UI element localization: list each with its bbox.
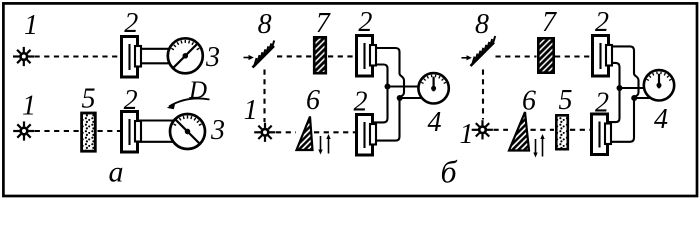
beam filter 7 to detector 2 bbox=[328, 55, 356, 57]
beam mirror to filter 7 bbox=[496, 55, 537, 57]
needle of meter 3 (top), pointing upper right bbox=[174, 43, 198, 67]
polarizer plate 5 bbox=[82, 113, 96, 151]
junction dot 1 bbox=[617, 85, 623, 91]
wire junction dot 2 to meter bbox=[634, 97, 652, 99]
photodetector 2 (top) bbox=[593, 36, 613, 77]
mirror 8 bbox=[244, 41, 275, 68]
svg-text:а: а bbox=[109, 156, 124, 189]
photodetector 2 (bottom) bbox=[122, 112, 142, 153]
wire junction dot 2 to meter bbox=[400, 97, 425, 99]
photodetector 2 (top) bbox=[122, 37, 142, 78]
svg-text:5: 5 bbox=[82, 84, 96, 115]
wire pair detector 2 to meter 3 (top) bbox=[139, 48, 172, 50]
svg-text:2: 2 bbox=[124, 8, 138, 39]
mirror 8 bbox=[462, 36, 496, 66]
needle of meter 3 (bottom), pointing upper left bbox=[176, 120, 200, 144]
beam filter 7 to detector 2 bbox=[555, 55, 592, 57]
svg-text:2: 2 bbox=[354, 87, 368, 118]
photodetector 2 (bottom) bbox=[357, 115, 377, 156]
beam source to wedge 6 bbox=[276, 131, 296, 133]
vertical beam source 1 to mirror 8 bbox=[263, 70, 265, 123]
rotation arrow D over meter bbox=[169, 98, 210, 106]
svg-text:1: 1 bbox=[24, 10, 38, 41]
vertical beam source 1 to mirror 8 bbox=[482, 70, 484, 120]
wire pair detector 2 to meter 3 (bottom) bbox=[139, 119, 174, 121]
junction dot 2 bbox=[397, 95, 403, 101]
beam wedge 6 to detector 2 bbox=[314, 131, 356, 133]
wire: junction 2 down to bottom detector lower terminal bbox=[372, 98, 400, 141]
photodetector 2 (top) bbox=[357, 36, 377, 77]
svg-text:5: 5 bbox=[559, 85, 573, 116]
svg-text:2: 2 bbox=[358, 7, 372, 38]
filter 7 bbox=[538, 38, 553, 72]
junction dot 1 bbox=[385, 84, 391, 90]
meter 4 bbox=[418, 73, 448, 103]
border frame bbox=[3, 3, 697, 196]
light source 1 (top) bbox=[13, 47, 34, 66]
beam: plate 5 to detector 2 bbox=[98, 130, 122, 132]
svg-text:3: 3 bbox=[210, 115, 225, 146]
svg-text:2: 2 bbox=[595, 7, 609, 38]
svg-text:8: 8 bbox=[258, 9, 272, 40]
beam mirror to filter 7 bbox=[277, 55, 313, 57]
wire: top detector lower terminal to bottom detector upper terminal bbox=[372, 65, 388, 123]
beam plate 5 to detector 2 bbox=[570, 129, 591, 131]
polarizer plate 5 bbox=[556, 115, 568, 149]
svg-text:б: б bbox=[441, 154, 458, 190]
svg-text:7: 7 bbox=[542, 7, 557, 38]
svg-text:3: 3 bbox=[205, 42, 220, 73]
beam: source to plate 5 bbox=[35, 130, 80, 132]
light source 1 (bottom) bbox=[13, 121, 34, 140]
beam source to wedge 6 bbox=[494, 129, 509, 131]
svg-text:1: 1 bbox=[22, 91, 36, 122]
wire: junction 2 down to bottom detector lower terminal bbox=[608, 98, 635, 142]
svg-text:1: 1 bbox=[244, 95, 258, 126]
light source 1 bbox=[472, 120, 493, 139]
wedge 6 bbox=[297, 117, 313, 151]
meter 4 bbox=[644, 70, 674, 100]
arrows down/up beside wedge bbox=[536, 137, 543, 157]
wire junction dot 1 to meter bbox=[620, 87, 648, 89]
svg-text:8: 8 bbox=[475, 9, 489, 40]
svg-text:7: 7 bbox=[316, 8, 331, 39]
arrows down/up beside wedge bbox=[321, 136, 329, 154]
wedge 6 bbox=[509, 112, 529, 151]
svg-text:D: D bbox=[188, 77, 207, 104]
wire: top detector upper terminal down to junction (with hop) bbox=[372, 48, 405, 98]
wire: top detector lower terminal to bottom detector upper terminal bbox=[608, 63, 620, 122]
meter 3 (bottom) bbox=[170, 114, 205, 149]
photodetector 2 (bottom) bbox=[592, 114, 612, 155]
svg-text:4: 4 bbox=[654, 104, 668, 135]
svg-text:6: 6 bbox=[306, 85, 320, 116]
wire junction dot 1 to meter bbox=[388, 85, 422, 87]
beam wedge 6 to plate 5 bbox=[531, 129, 555, 131]
svg-text:4: 4 bbox=[428, 107, 442, 138]
svg-text:1: 1 bbox=[460, 119, 474, 150]
light source 1 bbox=[254, 123, 275, 142]
beam: source 1 to detector 2 bbox=[35, 55, 122, 57]
meter 3 (top) bbox=[168, 38, 203, 73]
filter 7 bbox=[314, 37, 326, 73]
wire: top detector upper terminal down to junction (with hop) bbox=[609, 46, 639, 98]
junction dot 2 bbox=[631, 95, 637, 101]
